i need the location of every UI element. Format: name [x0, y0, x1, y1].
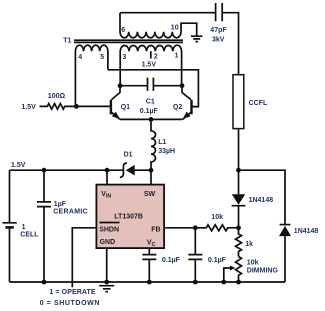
- svg-text:3: 3: [122, 54, 126, 61]
- svg-text:0.1µF: 0.1µF: [140, 108, 159, 115]
- wire emitter rail: [120, 118, 183, 120]
- wire SHDN to stub below rail: [72, 228, 96, 287]
- node CCFL/diodes: [236, 168, 241, 173]
- svg-text:4: 4: [78, 54, 82, 61]
- svg-text:3kV: 3kV: [212, 37, 225, 44]
- wire CCFL bottom: [238, 129, 240, 195]
- node VIN branch: [105, 168, 110, 173]
- svg-text:L1: L1: [158, 139, 166, 146]
- wire 1.5V rail to D1: [10, 169, 124, 171]
- pin 2 center tap stub: [150, 51, 152, 58]
- node wiper rail: [221, 280, 226, 285]
- svg-text:GND: GND: [100, 239, 116, 246]
- wire pin5 to Q2 base: [108, 70, 198, 107]
- capacitor 1uF ceramic: [37, 170, 51, 282]
- svg-text:SW: SW: [144, 191, 156, 198]
- node FB: [193, 225, 198, 230]
- svg-text:1N4148: 1N4148: [294, 228, 319, 235]
- wire ground rail bottom: [10, 281, 286, 283]
- svg-text:SHDN: SHDN: [99, 227, 119, 234]
- svg-text:47pF: 47pF: [210, 27, 227, 34]
- diode D1: [120, 163, 127, 178]
- svg-text:0 = SHUTDOWN: 0 = SHUTDOWN: [40, 300, 100, 307]
- svg-text:1µF: 1µF: [54, 201, 67, 208]
- wire GND pin to rail: [106, 248, 108, 282]
- svg-text:1.5V: 1.5V: [21, 104, 36, 111]
- wire branch to right diode: [239, 170, 286, 224]
- svg-text:33µH: 33µH: [158, 148, 175, 155]
- wire FB pin: [164, 227, 195, 229]
- node emitters/L1: [149, 117, 154, 122]
- battery 1 CELL: [3, 170, 17, 282]
- node D1/L1/SW: [149, 168, 154, 173]
- T1 secondary winding pins 6-10: [120, 13, 197, 38]
- resistor 1k: [236, 228, 242, 257]
- svg-text:FB: FB: [151, 227, 160, 234]
- potentiometer 10k DIMMING: [236, 257, 242, 283]
- node pin1/C1/Q2 collector: [180, 83, 185, 88]
- svg-text:D1: D1: [124, 152, 133, 159]
- op-amp U1 LT1307B IC body: [96, 185, 164, 249]
- T1 primary winding pins 3-2-1: [120, 45, 181, 85]
- svg-text:100Ω: 100Ω: [48, 93, 66, 100]
- svg-text:1 = OPERATE: 1 = OPERATE: [49, 289, 96, 296]
- svg-text:1k: 1k: [245, 241, 253, 248]
- node FB/diode/1k: [236, 225, 241, 230]
- capacitor 0.1uF at VC: [142, 255, 156, 282]
- wire VIN pin: [106, 170, 108, 184]
- wire top from T1 pin6 to C47: [120, 12, 216, 14]
- svg-text:10k: 10k: [211, 214, 223, 221]
- node pin3/C1/Q1 collector: [118, 83, 123, 88]
- svg-text:1: 1: [22, 224, 26, 231]
- node GND rail: [104, 280, 109, 285]
- svg-text:1N4148: 1N4148: [249, 197, 274, 204]
- transistor Q1: [110, 100, 112, 115]
- transistor Q2: [190, 100, 192, 115]
- inductor L1 33uH: [151, 119, 156, 170]
- T1 feedback winding pins 4-5: [75, 45, 107, 106]
- resistor 100 ohm: [40, 104, 77, 110]
- capacitor 0.1uF at FB: [188, 228, 202, 282]
- ground at T1 pin 10: [191, 36, 203, 41]
- svg-text:CCFL: CCFL: [249, 100, 268, 107]
- node 1uF branch: [42, 168, 47, 173]
- svg-text:0.1µF: 0.1µF: [162, 257, 181, 264]
- diode 1N4148 left: [232, 194, 245, 205]
- svg-text:1: 1: [175, 53, 179, 60]
- svg-text:Q1: Q1: [121, 104, 130, 111]
- svg-text:0.1µF: 0.1µF: [208, 257, 227, 264]
- svg-text:CELL: CELL: [20, 232, 39, 239]
- svg-text:C1: C1: [146, 99, 155, 106]
- diode 1N4148 right: [280, 224, 291, 226]
- ground symbol under GND: [99, 286, 114, 292]
- svg-text:Q2: Q2: [173, 104, 182, 111]
- svg-text:1.5V: 1.5V: [11, 162, 26, 169]
- svg-text:LT1307B: LT1307B: [114, 214, 143, 221]
- svg-text:CERAMIC: CERAMIC: [53, 209, 88, 216]
- wire C47 to right rail down to CCFL: [222, 13, 238, 75]
- svg-text:T1: T1: [63, 37, 71, 44]
- svg-text:10: 10: [171, 25, 179, 32]
- svg-text:1.5V: 1.5V: [142, 61, 157, 68]
- wire SW pin: [150, 170, 152, 184]
- capacitor C1 wires and plates: [120, 78, 182, 91]
- capacitor 47pF plates: [216, 3, 223, 21]
- svg-text:5: 5: [100, 54, 104, 61]
- CCFL lamp: [233, 75, 244, 129]
- wire to Q1 base: [76, 105, 111, 107]
- svg-text:10k: 10k: [247, 259, 259, 266]
- wire VC pin: [148, 248, 150, 254]
- svg-text:DIMMING: DIMMING: [247, 268, 279, 275]
- svg-text:6: 6: [121, 27, 125, 34]
- node pot bottom rail: [236, 280, 241, 285]
- resistor 10k FB: [195, 225, 238, 231]
- node junction pin4/100ohm/Q1 base: [74, 104, 79, 109]
- T1 core: [74, 40, 183, 42]
- svg-text:2: 2: [154, 54, 158, 61]
